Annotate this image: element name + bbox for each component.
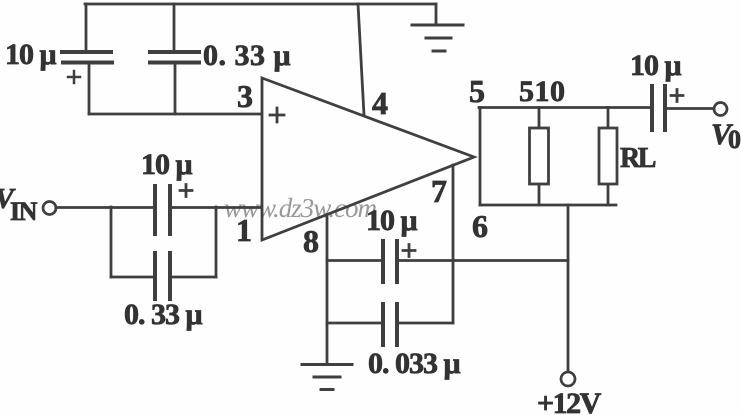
ground bottom [302, 365, 352, 390]
C7 plus sign [671, 90, 683, 102]
wire +12V drop [567, 205, 570, 371]
op-amp U1 triangle [262, 78, 474, 240]
wire bottom rail of top block [89, 113, 261, 116]
capacitor C6 0.033u plates [383, 304, 397, 345]
capacitor C3 10u plates [155, 186, 170, 234]
C1 plus sign [68, 71, 80, 83]
resistor R1 510 body [530, 128, 549, 184]
+12V terminal circle [561, 372, 575, 386]
wire loop bottom [111, 276, 216, 279]
wire left drop to C1 [85, 4, 88, 50]
wire right block top rail [479, 106, 652, 109]
svg-text:5: 5 [469, 73, 485, 109]
wire loop left [110, 207, 113, 277]
capacitor C4 0.33u plates [155, 253, 170, 299]
wire loop right [215, 207, 218, 277]
svg-text:3: 3 [237, 78, 253, 114]
wire pin4 drop [358, 4, 364, 115]
wire low rail (pin8 to pin7) [327, 322, 453, 325]
svg-text:6: 6 [472, 208, 488, 244]
svg-text:7: 7 [431, 173, 447, 209]
input terminal VIN circle [43, 202, 56, 215]
resistor R2 RL body [599, 128, 617, 184]
svg-text:0: 0 [728, 125, 741, 154]
svg-text:4: 4 [372, 85, 388, 121]
svg-text:10 μ: 10 μ [5, 38, 57, 71]
wire pin8 drop [326, 215, 329, 363]
resistor R1 510 leads [538, 108, 541, 206]
svg-text:10 μ: 10 μ [141, 148, 193, 181]
svg-text:+12V: +12V [537, 387, 602, 415]
ground top right stub [435, 4, 438, 24]
ground top right [412, 25, 463, 51]
svg-text:1: 1 [236, 212, 252, 248]
wire C1 bottom drop [88, 64, 91, 114]
capacitor C5 10u plates [383, 241, 397, 282]
capacitor C1 10u plates [62, 52, 112, 63]
resistor R2 RL leads [607, 108, 610, 206]
wire pin7 drop [452, 165, 455, 323]
op-amp plus input mark [270, 108, 284, 122]
output terminal VO circle [714, 103, 727, 116]
wire drop to C2 [173, 4, 176, 50]
wire input to pin1 [56, 206, 261, 209]
svg-text:RL: RL [620, 143, 656, 174]
wire top rail [85, 3, 436, 6]
wire right block left edge [479, 108, 482, 206]
svg-text:10 μ: 10 μ [366, 204, 418, 237]
wire mid rail (pin8 to +12V line) [327, 259, 568, 262]
C3 plus sign [180, 185, 192, 197]
svg-text:10 μ: 10 μ [630, 49, 682, 82]
wire right block bottom rail [480, 204, 616, 207]
svg-text:510: 510 [519, 75, 566, 108]
wire C7 to output [665, 107, 714, 110]
C5 plus sign [403, 245, 415, 257]
wire C2 bottom drop [174, 64, 177, 114]
capacitor C7 10u output plates [652, 86, 665, 130]
capacitor C2 0.33u plates [150, 52, 199, 63]
svg-text:8: 8 [303, 223, 319, 259]
svg-text:IN: IN [10, 197, 38, 226]
svg-text:0. 033 μ: 0. 033 μ [368, 347, 461, 380]
svg-text:0. 33 μ: 0. 33 μ [203, 39, 291, 72]
svg-text:0. 33 μ: 0. 33 μ [124, 298, 203, 331]
